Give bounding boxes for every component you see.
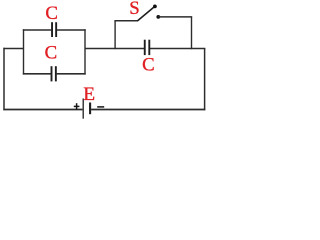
svg-text:S: S xyxy=(129,0,139,19)
wire: middle lead between parallel pair and capacitor C3 xyxy=(85,48,144,50)
wire: outer left edge xyxy=(3,48,5,111)
battery E negative plate (short thick) xyxy=(89,103,91,115)
wire: lead from capacitor C3 to right edge xyxy=(150,48,205,50)
capacitor C3 (right branch) xyxy=(145,40,150,55)
svg-text:C: C xyxy=(142,54,155,75)
capacitor C2 (bottom branch) xyxy=(23,66,86,81)
switch S blade tip dot xyxy=(153,5,157,9)
switch S blade xyxy=(137,7,154,21)
node: parallel-pair right junction (vertical bus) xyxy=(84,29,86,74)
wire: bottom right segment from battery negative plate xyxy=(91,109,205,111)
switch S branch: left horizontal lead xyxy=(114,20,137,22)
svg-text:E: E xyxy=(83,84,95,105)
polarity mark - xyxy=(97,106,104,108)
switch S branch: right riser xyxy=(191,17,193,49)
switch S branch: right horizontal lead xyxy=(158,16,192,18)
node: parallel-pair left junction (vertical bus) xyxy=(23,29,25,74)
wire: left lead into parallel pair xyxy=(3,48,23,50)
polarity mark + xyxy=(74,103,80,109)
wire: bottom left segment to battery positive plate xyxy=(3,109,82,111)
capacitor C1 (top branch) xyxy=(23,22,86,37)
wire: outer right edge xyxy=(204,48,206,110)
svg-text:C: C xyxy=(45,3,58,24)
svg-text:C: C xyxy=(45,42,58,63)
switch S branch: left riser xyxy=(114,21,116,50)
switch S fixed contact dot xyxy=(156,15,160,19)
battery E positive plate (long) xyxy=(82,99,84,119)
